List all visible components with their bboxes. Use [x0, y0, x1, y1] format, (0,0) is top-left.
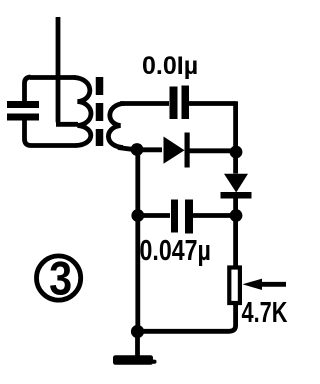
transformer core [96, 77, 104, 146]
inductor L1 primary winding [74, 78, 91, 146]
wire: D1 cathode to right rail [190, 148, 234, 153]
capacitor C2 0.01u plates [170, 86, 190, 120]
potentiometer wiper arrow [243, 279, 287, 290]
capacitor C3 0.047u plates [171, 200, 193, 234]
svg-text:0.0Iµ: 0.0Iµ [142, 52, 198, 80]
svg-text:3: 3 [49, 253, 72, 305]
diode D1 (series detector, pointing right) [164, 133, 190, 168]
wire: right rail upper segment [233, 101, 238, 173]
svg-text:4.7K: 4.7K [242, 297, 288, 329]
tank loop left/top/bottom wire [25, 77, 78, 146]
node B (junction dot right rail top) [230, 146, 243, 159]
ground [113, 355, 153, 365]
node A (junction dot left top) [131, 143, 144, 156]
wire: secondary top to C2 and to right rail [120, 101, 236, 106]
wire: right rail bottom + bottom return wire [137, 302, 236, 331]
wire: down to ground [135, 332, 140, 359]
node E (junction dot ground) [131, 325, 144, 338]
wire: secondary bottom to diode D1 [118, 148, 162, 150]
wire: left rail from node A down [135, 150, 140, 333]
svg-text:0.047µ: 0.047µ [140, 233, 211, 266]
node D (junction dot left rail mid) [131, 209, 144, 222]
wire: right rail into resistor [233, 216, 238, 268]
antenna lead wire [56, 17, 78, 124]
diode D2 (shunt, pointing down) [221, 174, 252, 199]
resistor R1 4.7K (box) [229, 268, 240, 304]
node C (junction dot right rail mid) [230, 209, 243, 222]
figure number 3 (circled) [37, 256, 81, 300]
capacitor C (tank, left plates) [7, 101, 39, 121]
capacitor C3 0.047u wires [138, 213, 236, 218]
inductor L2 secondary winding [108, 104, 124, 148]
wire: right rail between D2 and node C [233, 198, 238, 215]
